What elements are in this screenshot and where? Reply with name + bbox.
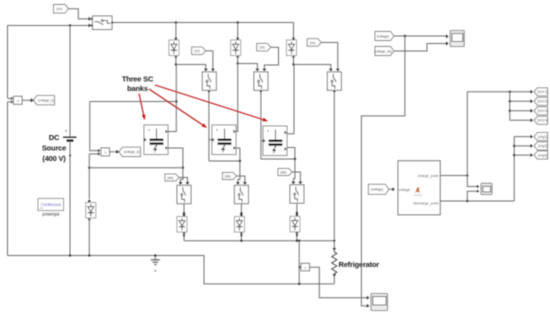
wire T2 to scope1 — [394, 42, 449, 52]
diode D5 — [234, 214, 244, 235]
wire out2 to scope2 — [467, 190, 479, 202]
wire D6 to bottom bus — [296, 232, 298, 241]
node K — [296, 240, 298, 242]
wire discharge bus — [184, 240, 334, 242]
wire out2 up to goto bus2 — [514, 135, 533, 201]
node L (CM tap) — [298, 240, 300, 242]
node D3 out — [292, 63, 294, 65]
diode D4 — [177, 214, 187, 235]
from tag T2 voltage_dc — [374, 47, 394, 56]
from tag F1 (source breaker control) — [54, 5, 69, 14]
svg-text:[voltage_d]: [voltage_d] — [124, 150, 140, 154]
wire U1 out1 — [440, 175, 467, 177]
powergui block — [38, 199, 64, 217]
wire goto bus drops — [509, 92, 511, 121]
wire F4 to CB4 — [321, 43, 340, 72]
svg-text:powergui: powergui — [42, 211, 59, 216]
svg-text:[voltage]: [voltage] — [371, 188, 383, 192]
breaker CB6 — [234, 185, 248, 203]
wire SC3 top riser — [287, 65, 295, 134]
diode D3 — [287, 23, 297, 65]
wire to tag A3 — [510, 109, 533, 113]
wire neg link row — [89, 167, 183, 169]
node J — [240, 240, 242, 242]
wire CB2 out to SC2 rail — [208, 90, 210, 161]
wire SC2 top riser — [236, 64, 238, 132]
svg-text:[dis]: [dis] — [167, 176, 173, 180]
scope Scope2 — [481, 183, 492, 194]
supercapacitor SC3 — [263, 126, 287, 156]
svg-text:[SOC1]: [SOC1] — [537, 90, 548, 94]
svg-text:[dis]: [dis] — [225, 174, 231, 178]
node D2 out — [237, 62, 239, 64]
svg-text:charge_point: charge_point — [418, 174, 439, 178]
wire node H to CB6 — [236, 161, 240, 185]
supercapacitor SC1 — [144, 125, 168, 155]
breaker CB3 — [254, 72, 268, 90]
node H (discharge2 top) — [239, 160, 241, 162]
voltage measurement VM1 — [11, 96, 22, 104]
svg-text:v: v — [17, 98, 19, 103]
from tag F5 (CB5 control) — [165, 174, 179, 181]
node G (neg rail) — [88, 167, 90, 169]
svg-text:[on]: [on] — [310, 41, 315, 45]
svg-text:(400 V): (400 V) — [42, 154, 66, 163]
diode D1 — [169, 23, 179, 65]
goto tag A2 — [534, 97, 548, 105]
node R — [509, 91, 511, 93]
goto tag G1 voltage source — [34, 96, 55, 105]
wire F7 to CB7 — [292, 172, 302, 184]
node A (DC+ tap) — [69, 24, 71, 26]
wire CB5 to D4 — [183, 204, 185, 216]
wire D3 node to CB4 — [294, 65, 333, 72]
node O (return) — [298, 283, 300, 285]
wire CB6 to D5 — [240, 204, 242, 216]
from tag F8 voltage to controller — [368, 184, 388, 194]
from tag F3 (CB3 control) — [257, 43, 271, 51]
wire VM2 out to G2 — [110, 150, 120, 154]
svg-text:[ch]: [ch] — [194, 49, 199, 53]
svg-text:Refrigerator: Refrigerator — [339, 260, 380, 269]
svg-text:Continuous: Continuous — [41, 202, 61, 207]
svg-text:DC: DC — [49, 133, 60, 142]
diode D2 — [231, 23, 241, 64]
wire CM riser — [298, 241, 300, 284]
scope Scope1 — [450, 31, 464, 47]
wire to tag B3 — [514, 153, 533, 157]
wire D5 to bottom bus — [240, 232, 242, 241]
wire F3 to CB3 — [262, 47, 278, 71]
subsystem U1 charge controller — [398, 161, 440, 215]
wire SC1 top port riser — [168, 65, 176, 132]
wire D1 node to CB2 — [176, 65, 208, 72]
voltage measurement VM2 — [101, 148, 110, 156]
node T — [509, 110, 511, 112]
svg-text:Three SC: Three SC — [122, 75, 154, 84]
wire SC2 left tap — [209, 139, 212, 141]
wire VM1 out to G1 — [22, 98, 34, 102]
label DC Source (400 V) — [42, 133, 66, 163]
wire VM2 rail upper — [90, 102, 100, 153]
svg-text:[SOC2]: [SOC2] — [537, 100, 548, 104]
wire out1 to scope2 — [467, 176, 479, 189]
wire T1 to scope1 — [394, 34, 449, 38]
goto tag B2 — [534, 142, 548, 150]
goto tag G2 voltage dc — [119, 147, 141, 156]
goto tag B1 — [534, 133, 548, 141]
node C (top bus / D2) — [237, 21, 239, 23]
wire out1 up to goto bus — [467, 90, 533, 176]
node D1 out — [175, 63, 177, 65]
goto tag A4 — [534, 116, 548, 124]
annotation arrow to SC1 — [139, 94, 146, 120]
wire D2 node to CB3 — [238, 64, 260, 72]
svg-text:[SOC3]: [SOC3] — [537, 109, 548, 113]
DC source V1 (battery) — [63, 26, 77, 256]
wire U1 out2 — [440, 200, 514, 202]
node F (discharge1 top) — [182, 167, 184, 169]
wire CB7 to D6 — [296, 203, 298, 216]
goto tag A1 — [534, 88, 548, 96]
svg-text:[on]: [on] — [57, 7, 62, 11]
node I (discharge3 top) — [294, 158, 296, 160]
wire VM2 in- — [89, 152, 100, 199]
node U — [466, 200, 468, 202]
svg-text:[voltage_s]: [voltage_s] — [38, 98, 53, 102]
wire F8 to U1 — [389, 187, 395, 191]
wire CM1 out to scope — [310, 267, 370, 299]
wire T1 signal to scope3 — [361, 36, 405, 308]
svg-text:banks: banks — [127, 84, 148, 93]
svg-text:control: control — [414, 193, 423, 197]
node Q — [466, 174, 468, 176]
svg-text:[dis]: [dis] — [280, 170, 286, 174]
svg-text:discharge_point: discharge_point — [413, 202, 438, 206]
wire VM1 in+ — [8, 98, 13, 100]
wire return bus — [8, 256, 335, 284]
wire left rail top — [8, 24, 92, 98]
from tag F2 (CB2 control) — [192, 47, 206, 55]
diode D6 — [290, 214, 300, 235]
wire to tag A2 — [510, 99, 533, 103]
wire VM1 in- — [8, 101, 13, 103]
svg-text:v: v — [104, 150, 106, 155]
svg-text:[chg2]: [chg2] — [538, 144, 547, 148]
breaker CB4 (refrigerator) — [327, 72, 341, 90]
svg-text:v: v — [304, 265, 306, 270]
resistor R1 refrigerator — [332, 240, 337, 284]
breaker CB2 — [202, 72, 216, 90]
label Refrigerator — [339, 260, 380, 269]
scope Scope3 — [371, 294, 388, 311]
annotation arrow to SC2 — [149, 89, 207, 128]
svg-text:[voltage_dc]: [voltage_dc] — [374, 49, 391, 53]
diode D7 — [86, 200, 96, 256]
supercapacitor SC2 — [212, 125, 236, 155]
ground — [151, 254, 160, 270]
from tag F7 (CB7 control) — [278, 168, 292, 175]
wire SC2 bottom loop — [209, 148, 240, 161]
wire SC3 left tap — [261, 140, 263, 142]
wire F6 to CB6 — [236, 176, 246, 185]
node N (rail2) — [88, 254, 90, 256]
from tag T1 voltage — [375, 32, 394, 41]
wire node F to CB5 — [179, 168, 183, 185]
wire F5 to CB5 — [179, 178, 189, 185]
from tag F6 (CB6 control) — [222, 172, 236, 179]
node W — [513, 154, 515, 156]
current measurement CM1 — [299, 263, 310, 271]
svg-text:Source: Source — [42, 144, 66, 153]
wire CB3 out to SC3 rail — [260, 90, 262, 159]
from tag F4 (CB4 control) — [307, 39, 321, 47]
wire to tag B2 — [514, 144, 533, 148]
label Three SC banks — [122, 75, 154, 94]
wire F2 to CB2 — [206, 51, 215, 71]
node E (VM2 tap) — [175, 100, 177, 102]
svg-text:[ch]: [ch] — [260, 45, 265, 49]
svg-text:voltage: voltage — [399, 188, 411, 192]
goto tag B3 — [534, 151, 548, 159]
node S — [509, 100, 511, 102]
node P — [404, 35, 406, 37]
svg-text:[chg1]: [chg1] — [538, 135, 547, 139]
wire SC1 bottom port drop — [168, 148, 183, 168]
wire SC3 bottom loop — [261, 148, 295, 160]
node V — [513, 145, 515, 147]
wire node I to CB7 — [291, 159, 295, 184]
wire to tag A4 — [510, 118, 533, 122]
svg-text:[voltage]: [voltage] — [377, 34, 389, 38]
wire VM1 minus rail — [7, 102, 9, 256]
breaker CB1 (source) — [91, 16, 112, 30]
breaker CB5 — [177, 185, 191, 203]
breaker CB7 — [290, 185, 304, 203]
svg-text:[chg3]: [chg3] — [538, 153, 547, 157]
wire D4 to bottom bus — [183, 232, 185, 241]
node M (DC- ) — [69, 254, 71, 256]
wire F1 to breaker CB1 — [69, 9, 92, 21]
node B (top bus / D1) — [175, 21, 177, 23]
wire top bus — [111, 22, 294, 24]
annotation arrow to SC3 — [155, 85, 268, 121]
wire CB4 out to load — [333, 90, 335, 248]
wire VM2 top link — [90, 101, 177, 103]
svg-text:[SOC4]: [SOC4] — [537, 119, 548, 123]
goto tag A3 — [534, 107, 548, 115]
